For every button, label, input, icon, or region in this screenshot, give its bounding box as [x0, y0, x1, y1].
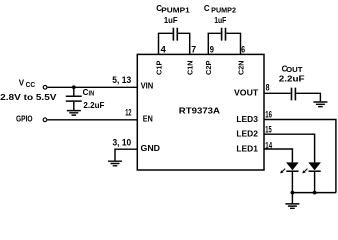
wire GND pin to ground — [115, 149, 137, 160]
wire LED3 pin to rail — [264, 120, 336, 193]
wire LED1 pin to LED D1 anode — [264, 149, 292, 162]
wire LED D1 cathode to rail — [291, 171, 293, 192]
svg-text:LED3: LED3 — [236, 115, 258, 124]
svg-text:12: 12 — [125, 107, 131, 117]
svg-text:3, 10: 3, 10 — [113, 138, 132, 148]
svg-text:1uF: 1uF — [214, 15, 226, 25]
LED D1 — [280, 162, 299, 173]
capacitor CIN — [66, 96, 82, 101]
ground below GND pin — [108, 161, 122, 166]
svg-text:1uF: 1uF — [164, 15, 178, 25]
wire CIN stub — [73, 87, 75, 95]
svg-text:RT9373A: RT9373A — [179, 106, 220, 116]
svg-text:2.8V to 5.5V: 2.8V to 5.5V — [0, 92, 57, 102]
wire VCC to VIN pin — [48, 86, 138, 88]
svg-text:LED1: LED1 — [236, 144, 258, 153]
capacitor COUT — [292, 88, 296, 101]
wire LED2 pin to LED D2 anode — [264, 134, 315, 162]
node junction dot D2 cathode / rail — [313, 191, 317, 195]
svg-text:7: 7 — [191, 44, 196, 54]
ground below COUT — [313, 102, 327, 107]
svg-text:14: 14 — [265, 140, 272, 150]
svg-text:GPIO: GPIO — [16, 114, 33, 124]
node GPIO terminal circle — [43, 118, 47, 122]
node junction dot VIN/CIN — [72, 85, 76, 89]
ground below LEDs — [285, 204, 299, 208]
wire VOUT pin to COUT — [264, 92, 291, 94]
wire rail to ground stub — [291, 193, 293, 204]
wire CIN to ground — [73, 102, 75, 110]
svg-text:C: C — [204, 4, 210, 13]
LED D2 — [302, 162, 321, 173]
svg-text:IN: IN — [89, 90, 95, 97]
svg-text:6: 6 — [241, 45, 245, 55]
svg-text:2.2uF: 2.2uF — [279, 74, 305, 84]
svg-text:C2P: C2P — [204, 61, 213, 75]
wire bottom rail — [292, 192, 336, 194]
IC U1 RT9373A body — [137, 54, 264, 170]
svg-text:PUMP1: PUMP1 — [161, 8, 190, 15]
wire pin9 lead to CPUMP2 — [208, 33, 221, 54]
svg-text:16: 16 — [265, 109, 272, 119]
node junction dot D1 cathode / rail — [291, 191, 295, 195]
capacitor CPUMP1 — [173, 28, 177, 41]
svg-text:EN: EN — [143, 115, 153, 124]
svg-text:8: 8 — [266, 83, 270, 93]
svg-text:9: 9 — [210, 44, 214, 54]
svg-text:C2N: C2N — [236, 61, 245, 75]
svg-text:GND: GND — [141, 144, 161, 153]
svg-text:VIN: VIN — [141, 82, 154, 91]
wire COUT to ground — [296, 93, 320, 101]
wire CPUMP1 to pin7 lead — [178, 33, 190, 54]
svg-text:CC: CC — [26, 82, 35, 89]
svg-text:C1N: C1N — [186, 61, 195, 75]
ground below CIN — [67, 111, 81, 116]
node VCC terminal circle — [43, 85, 47, 89]
wire GPIO to EN pin — [48, 119, 138, 121]
svg-text:PUMP2: PUMP2 — [211, 8, 236, 15]
svg-text:C1P: C1P — [155, 61, 164, 75]
svg-text:4: 4 — [161, 45, 166, 55]
wire pin4 lead to CPUMP1 — [159, 33, 173, 54]
wire CPUMP2 to pin6 lead — [226, 33, 240, 54]
svg-text:V: V — [19, 78, 25, 87]
capacitor CPUMP2 — [222, 28, 226, 41]
svg-text:15: 15 — [265, 125, 271, 135]
svg-text:5, 13: 5, 13 — [112, 75, 131, 85]
svg-text:2.2uF: 2.2uF — [83, 100, 104, 110]
svg-text:LED2: LED2 — [236, 129, 258, 138]
wire LED D2 cathode to rail — [314, 171, 316, 192]
svg-text:VOUT: VOUT — [234, 89, 258, 98]
